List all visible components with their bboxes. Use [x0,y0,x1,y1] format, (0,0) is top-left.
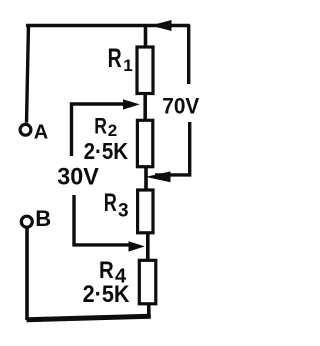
svg-text:30V: 30V [57,164,99,191]
svg-text:3: 3 [118,200,129,221]
svg-text:2·5K: 2·5K [84,138,129,164]
svg-text:R: R [108,43,122,73]
svg-text:R: R [104,188,117,217]
svg-text:A: A [34,122,48,144]
svg-text:R: R [94,114,107,139]
svg-text:1: 1 [123,56,132,75]
svg-text:2·5K: 2·5K [83,281,130,308]
svg-text:70V: 70V [162,93,199,118]
svg-text:2: 2 [108,121,117,140]
svg-text:B: B [35,206,51,231]
svg-text:R: R [99,257,114,284]
